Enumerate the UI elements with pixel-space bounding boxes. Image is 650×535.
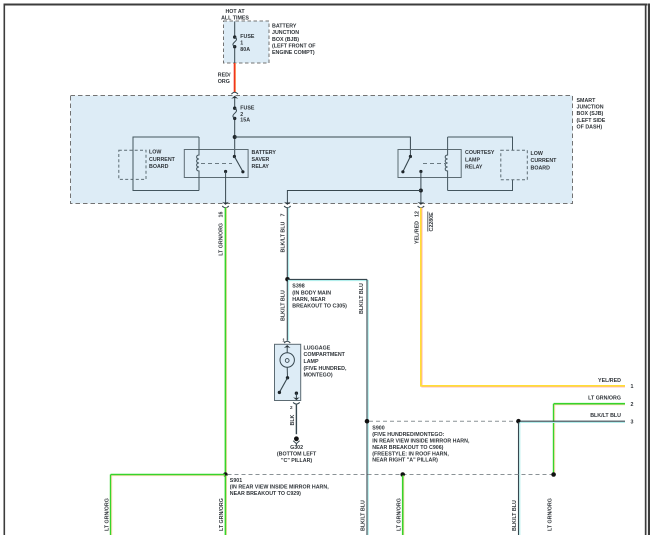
low current board right dashed box [501, 150, 528, 180]
wire SJB entry to fuse 2 [234, 98, 236, 107]
svg-text:BLK/LT BLU: BLK/LT BLU [361, 500, 367, 531]
arrow out of SJB pin 7 [284, 202, 291, 205]
wire RED/ORG label [218, 73, 231, 85]
wire RED/ORG [235, 63, 237, 92]
splice S398 [285, 277, 290, 282]
battery saver relay coil [197, 137, 199, 191]
splice S901 label [230, 478, 329, 497]
wire LT GRN/ORG to pin 2 [554, 404, 625, 406]
splice S901 dashed line [228, 474, 554, 476]
svg-text:FUSE: FUSE [240, 34, 255, 40]
svg-text:7: 7 [280, 214, 286, 217]
svg-text:CURRENT: CURRENT [149, 157, 176, 163]
smart junction box SJB [71, 96, 573, 204]
svg-text:(FIVE HUNDRED,: (FIVE HUNDRED, [304, 366, 347, 372]
svg-text:BOX (BJB): BOX (BJB) [272, 37, 299, 43]
arrow out of lamp box pin 2 [293, 397, 300, 400]
splice S901 junction node right [551, 472, 556, 477]
fuse F2 value label [240, 106, 255, 124]
svg-text:YEL/RED: YEL/RED [415, 221, 421, 244]
svg-text:2: 2 [631, 402, 634, 408]
courtesy lamp relay link dashed [423, 163, 445, 165]
svg-text:(LEFT FRONT OF: (LEFT FRONT OF [272, 44, 316, 50]
svg-text:BOARD: BOARD [149, 164, 169, 170]
svg-text:RED/: RED/ [218, 73, 231, 79]
wire fuse1 to BJB edge [234, 48, 236, 63]
wire courtesy output to SJB edge [420, 172, 422, 204]
svg-text:G302: G302 [290, 445, 303, 451]
svg-text:1: 1 [240, 41, 243, 47]
svg-text:NEAR RIGHT "A" PILLAR): NEAR RIGHT "A" PILLAR) [372, 458, 438, 464]
svg-text:LT GRN/ORG: LT GRN/ORG [588, 396, 621, 402]
svg-text:FUSE: FUSE [240, 106, 255, 112]
wire LT GRN/ORG S901 down [226, 476, 228, 535]
splice S900 label [372, 426, 470, 464]
svg-text:CURRENT: CURRENT [531, 158, 558, 164]
svg-text:LUGGAGE: LUGGAGE [304, 345, 331, 351]
wire battery feed to courtesy relay [235, 137, 411, 157]
svg-text:YEL/RED: YEL/RED [598, 378, 621, 384]
arrow out of SJB pin 12 [417, 202, 424, 205]
svg-text:LOW: LOW [149, 150, 161, 156]
wire LT GRN/ORG pin16 vertical [226, 208, 228, 475]
svg-text:"C" PILLAR): "C" PILLAR) [281, 458, 312, 464]
svg-text:BLK/LT BLU: BLK/LT BLU [512, 500, 518, 531]
svg-text:BLK/LT BLU: BLK/LT BLU [359, 283, 365, 314]
wire BLK/LT BLU branch S398 to right drop [288, 280, 368, 535]
svg-text:BLK/LT BLU: BLK/LT BLU [590, 413, 621, 419]
wire fuse2 to junction [234, 120, 236, 157]
arrow into lamp box [284, 345, 291, 348]
svg-text:HOT AT: HOT AT [225, 9, 245, 15]
wire loop courtesy coil to low current board right [448, 137, 513, 191]
svg-text:LT GRN/ORG: LT GRN/ORG [219, 498, 225, 531]
svg-text:(FREESTYLE: IN ROOF HARN,: (FREESTYLE: IN ROOF HARN, [372, 451, 449, 457]
svg-text:NEAR BREAKOUT TO C906): NEAR BREAKOUT TO C906) [372, 445, 443, 451]
luggage compartment lamp label [304, 345, 347, 378]
svg-text:BLK/LT BLU: BLK/LT BLU [280, 290, 286, 321]
low current board left dashed box [119, 150, 146, 179]
wire LT GRN/ORG mid drop [403, 476, 405, 535]
svg-text:OF DASH): OF DASH) [577, 124, 603, 130]
svg-text:ENGINE COMPT): ENGINE COMPT) [272, 50, 315, 56]
svg-text:S398: S398 [292, 284, 304, 290]
svg-text:BATTERY: BATTERY [272, 23, 297, 29]
battery junction box BJB label [272, 23, 316, 56]
ground G302 symbol [294, 436, 299, 441]
splice S900 junction node [516, 419, 521, 424]
svg-text:BLK/LT BLU: BLK/LT BLU [280, 222, 286, 253]
splice S901 [223, 472, 228, 477]
lamp switch [286, 367, 288, 377]
splice S398 label [292, 284, 347, 310]
svg-text:(IN REAR VIEW INSIDE MIRROR HA: (IN REAR VIEW INSIDE MIRROR HARN, [230, 485, 329, 491]
svg-text:SAVER: SAVER [252, 157, 270, 163]
wire loop low current board to battery saver coil [133, 137, 199, 191]
junction node courtesy output [419, 189, 423, 193]
svg-text:(FIVE HUNDRED/MONTEGO:: (FIVE HUNDRED/MONTEGO: [372, 432, 444, 438]
wire BLK/LT BLU S398 to lamp [288, 281, 290, 341]
svg-text:LT GRN/ORG: LT GRN/ORG [547, 498, 553, 531]
svg-text:ORG: ORG [218, 79, 230, 85]
svg-text:NEAR BREAKOUT TO C929): NEAR BREAKOUT TO C929) [230, 491, 301, 497]
svg-text:JUNCTION: JUNCTION [272, 30, 299, 36]
svg-text:BOX (SJB): BOX (SJB) [577, 111, 604, 117]
wire YEL/RED pin12 [422, 208, 625, 387]
svg-text:BATTERY: BATTERY [252, 150, 277, 156]
wire lamp output to box edge [295, 393, 297, 399]
wire BLK to ground [295, 405, 297, 435]
svg-text:RELAY: RELAY [465, 165, 483, 171]
svg-text:LOW: LOW [531, 151, 543, 157]
svg-text:LT GRN/ORG: LT GRN/ORG [104, 498, 110, 531]
lamp pin 1 connector arcs [284, 341, 290, 343]
svg-text:LAMP: LAMP [304, 359, 319, 365]
connector C2280E underline [427, 212, 429, 232]
svg-text:LT GRN/ORG: LT GRN/ORG [218, 223, 224, 256]
junction node fuse2 output [233, 135, 237, 139]
svg-text:(LEFT SIDE: (LEFT SIDE [577, 118, 606, 124]
wire LT GRN/ORG S901 branch left [111, 475, 225, 477]
splice S901 junction node mid [400, 472, 405, 477]
lamp bulb symbol [286, 347, 288, 353]
courtesy lamp relay switch [409, 155, 412, 158]
svg-text:16: 16 [218, 212, 224, 218]
wire feed into fuse 1 [234, 22, 236, 37]
svg-text:JUNCTION: JUNCTION [577, 105, 604, 111]
wire BLK/LT BLU junction drop [519, 422, 521, 535]
courtesy lamp relay coil [445, 137, 447, 191]
wire branch to pin 7 [287, 191, 421, 204]
svg-text:C2280E: C2280E [429, 212, 435, 232]
battery saver relay switch [233, 155, 236, 158]
svg-text:S901: S901 [230, 478, 242, 484]
wire battery saver output to SJB edge [225, 172, 227, 204]
svg-text:HARN, NEAR: HARN, NEAR [292, 297, 325, 303]
svg-text:COURTESY: COURTESY [465, 150, 495, 156]
svg-text:3: 3 [631, 419, 634, 425]
fuse F1 value label [240, 34, 255, 53]
arrow into SJB top [231, 92, 238, 94]
courtesy lamp relay box [398, 150, 461, 178]
arrow out of SJB pin 16 [222, 202, 229, 205]
svg-text:BREAKOUT TO C305): BREAKOUT TO C305) [292, 304, 347, 310]
low current board right label [531, 151, 558, 171]
svg-text:ALL TIMES: ALL TIMES [221, 16, 249, 22]
battery saver relay box [184, 150, 248, 178]
battery junction box BJB [224, 21, 270, 63]
svg-text:BLK: BLK [290, 414, 296, 425]
svg-text:COMPARTMENT: COMPARTMENT [304, 352, 346, 358]
lamp pin 2 connector arc [293, 402, 300, 404]
svg-text:IN REAR VIEW INSIDE MIRROR HAR: IN REAR VIEW INSIDE MIRROR HARN, [372, 439, 470, 445]
smart junction box SJB label [577, 98, 606, 130]
wire BLK/LT BLU junction to pin 3 [520, 421, 625, 423]
svg-text:MONTEGO): MONTEGO) [304, 373, 333, 379]
luggage compartment lamp box [275, 344, 301, 400]
svg-text:BOARD: BOARD [531, 165, 551, 171]
svg-text:(BOTTOM LEFT: (BOTTOM LEFT [277, 451, 317, 457]
splice S900 dashed line [369, 420, 517, 422]
power source label HOT AT ALL TIMES [221, 9, 249, 22]
wire BLK/LT BLU pin7 vertical [288, 208, 290, 278]
svg-text:S900: S900 [372, 426, 384, 432]
svg-text:12: 12 [415, 211, 421, 217]
courtesy lamp relay label [465, 150, 495, 170]
svg-text:SMART: SMART [577, 98, 597, 104]
svg-text:(IN BODY MAIN: (IN BODY MAIN [292, 290, 331, 296]
svg-text:80A: 80A [240, 47, 250, 53]
fuse F1 symbol [233, 35, 236, 38]
svg-text:2: 2 [290, 405, 293, 410]
battery saver relay link dashed [201, 163, 232, 165]
svg-text:RELAY: RELAY [252, 164, 270, 170]
svg-text:LAMP: LAMP [465, 157, 480, 163]
svg-text:1: 1 [631, 384, 634, 390]
fuse F2 symbol [233, 107, 236, 110]
low current board left label [149, 150, 176, 170]
svg-text:LT GRN/ORG: LT GRN/ORG [396, 498, 402, 531]
battery saver relay label [252, 150, 277, 170]
ground G302 label [277, 445, 317, 464]
svg-text:15A: 15A [240, 118, 250, 124]
splice S900 [365, 419, 370, 424]
